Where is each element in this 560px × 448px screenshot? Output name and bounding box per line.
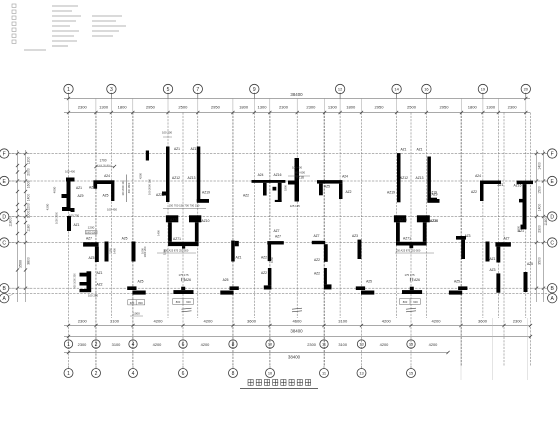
column AZ16 stub (273, 187, 277, 191)
svg-text:2500: 2500 (407, 105, 417, 110)
short wall bar x146 (146, 151, 149, 161)
svg-text:AZ1: AZ1 (76, 186, 82, 190)
svg-text:3500: 3500 (538, 257, 542, 265)
svg-text:AZ3: AZ3 (89, 186, 95, 190)
axis line x=504 (503, 113, 505, 367)
column AZ7 bar (83, 242, 99, 246)
row bubble B left (0, 284, 9, 293)
bottom bubble row 2 (68, 366, 70, 369)
svg-text:1400: 1400 (538, 162, 542, 170)
svg-text:1400: 1400 (157, 230, 161, 236)
svg-text:AZ12: AZ12 (172, 176, 180, 180)
svg-text:1000: 1000 (133, 312, 140, 316)
svg-text:AZ7: AZ7 (273, 229, 279, 233)
svg-text:800: 800 (403, 300, 408, 304)
axis line x=132.8 (132, 113, 134, 367)
svg-text:100 A25 875 250 500: 100 A25 875 250 500 (164, 248, 189, 252)
grid bubble 9 top (250, 84, 259, 93)
svg-text:AZ5: AZ5 (102, 194, 108, 198)
svg-text:1400: 1400 (113, 248, 117, 254)
svg-text:1400: 1400 (538, 204, 542, 212)
svg-text:4200: 4200 (431, 319, 441, 324)
bottom bubble 6 row1 (179, 340, 187, 348)
svg-text:2300: 2300 (78, 319, 88, 324)
svg-text:11800: 11800 (544, 216, 548, 225)
svg-text:2300: 2300 (508, 105, 518, 110)
svg-text:1000 100: 1000 100 (86, 231, 97, 234)
svg-text:2950: 2950 (375, 105, 385, 110)
svg-text:3: 3 (110, 87, 113, 93)
svg-text:A24: A24 (342, 175, 348, 179)
row bubble F left (0, 149, 9, 158)
grid bubble 14 top (392, 84, 401, 93)
grid bubble 20 top (521, 84, 530, 93)
svg-text:1600: 1600 (27, 181, 31, 189)
column A24 leg right wing (480, 184, 484, 201)
axis line x=254.3 (253, 113, 255, 319)
axis line x=197.8 (197, 113, 199, 319)
svg-text:AZ7: AZ7 (86, 237, 92, 241)
caption underline (240, 388, 318, 390)
row bubble E left (0, 176, 9, 185)
svg-text:AZ13: AZ13 (416, 176, 424, 180)
svg-text:1300: 1300 (99, 105, 109, 110)
svg-text:1400: 1400 (27, 194, 31, 202)
column A24 right leg (339, 184, 343, 199)
A26 dim ticks above (181, 278, 183, 282)
stair core left leg (168, 222, 172, 242)
column bar x498 B-row (496, 273, 500, 292)
wall column AZ1 lower segment (67, 216, 71, 231)
axis line x=530.5 (530, 113, 532, 367)
wall AZ12 axis14 (397, 153, 401, 202)
column A25 bar x133 (132, 242, 136, 262)
svg-text:D: D (550, 214, 554, 220)
svg-text:1200: 1200 (27, 157, 31, 165)
svg-text:1800: 1800 (239, 105, 249, 110)
svg-text:AZ71: AZ71 (403, 237, 411, 241)
svg-text:AZ13: AZ13 (188, 176, 196, 180)
svg-text:4200: 4200 (380, 342, 389, 347)
bottom bubble 4 row2 (129, 369, 138, 378)
svg-text:8: 8 (232, 342, 235, 348)
svg-text:A24: A24 (475, 174, 481, 178)
wall column AZ1 axis1 vertical web (67, 182, 71, 210)
svg-text:1500: 1500 (163, 249, 167, 255)
stair core AZ10 top bar right right-wing (417, 215, 430, 222)
grid line row A (8, 292, 548, 294)
column A26 wide bar (173, 290, 193, 294)
column A26 centre blob right (410, 287, 414, 290)
row bubble C right (548, 238, 557, 247)
svg-text:AZ2: AZ2 (345, 190, 351, 194)
svg-text:15: 15 (409, 370, 413, 375)
grid bubble 16 top (422, 84, 431, 93)
column C-row bar x487 (486, 242, 490, 262)
svg-text:600: 600 (130, 301, 135, 305)
column A26 wide bar right (402, 290, 422, 294)
svg-text:800: 800 (138, 301, 143, 305)
svg-text:1: 1 (67, 371, 70, 377)
stair core bottom stub (182, 246, 185, 249)
svg-text:4200: 4200 (46, 203, 50, 210)
column far-right top bar (517, 181, 533, 185)
svg-text:AZ5: AZ5 (527, 262, 533, 266)
column AZ16 leg b (278, 183, 282, 202)
bottom dim line 3 (64, 352, 448, 354)
column AZ3 leg x463 (461, 240, 465, 259)
bottom detail dim line (64, 325, 531, 327)
column AZ1 stub right (235, 241, 239, 246)
column far-right stub (519, 199, 523, 203)
wall AZ1/AZ2 axis2 web (87, 271, 92, 292)
svg-text:150 A25 875 250 500: 150 A25 875 250 500 (396, 248, 421, 252)
svg-text:2950: 2950 (439, 105, 449, 110)
svg-text:AZ2: AZ2 (261, 256, 267, 260)
bottom bubble 11 row2 (320, 369, 329, 378)
svg-text:175 175: 175 175 (178, 273, 189, 277)
svg-text:100 400: 100 400 (292, 166, 303, 170)
svg-text:1180: 1180 (27, 224, 31, 231)
svg-text:11: 11 (322, 341, 326, 346)
svg-text:1800: 1800 (468, 105, 478, 110)
column AZ1 bar x233 (231, 241, 235, 262)
svg-text:AZ1: AZ1 (73, 223, 79, 227)
bottom bubble 10 row1 (266, 340, 274, 348)
svg-text:AZ3: AZ3 (464, 234, 470, 238)
faint trailing vertical (527, 318, 529, 380)
axis line x=297.2 (296, 113, 298, 319)
svg-text:3800: 3800 (27, 257, 31, 265)
svg-text:1050: 1050 (270, 257, 274, 263)
axis line x=111.4 (110, 113, 112, 319)
svg-text:1: 1 (67, 342, 70, 348)
svg-text:100 2000 100: 100 2000 100 (148, 179, 152, 195)
bottom overall dim line (64, 336, 531, 338)
svg-text:AZ3: AZ3 (489, 268, 495, 272)
wall axis2 stub bottom (80, 289, 87, 292)
svg-text:800: 800 (176, 300, 181, 304)
svg-text:2300: 2300 (78, 105, 88, 110)
wall AZ19 bottom bar (197, 199, 209, 203)
axis line x=183 (182, 113, 184, 367)
svg-text:4200: 4200 (153, 319, 163, 324)
bottom bubble 15 row2 (407, 369, 416, 378)
wall AZ13 axis16 (427, 157, 431, 203)
grid bubble 12 top (335, 84, 344, 93)
bottom bubble 1 row2 (64, 369, 73, 378)
svg-text:AZ70: AZ70 (170, 218, 178, 222)
row bubble A right (548, 294, 557, 303)
svg-text:2300: 2300 (538, 225, 542, 233)
grid bubble 3 top (107, 84, 116, 93)
right dim line outer (543, 150, 545, 302)
svg-text:AZ25: AZ25 (156, 193, 164, 197)
svg-text:AZ2: AZ2 (314, 272, 320, 276)
svg-text:2950: 2950 (211, 105, 221, 110)
column far-right tall web (523, 184, 527, 228)
column A26 centre blob (181, 287, 185, 290)
A26 right dim ticks above (409, 278, 411, 282)
column AZ7 leg x498 (496, 247, 500, 263)
svg-text:AZ2: AZ2 (96, 283, 102, 287)
axis line x=340.1 (339, 113, 341, 319)
stair core AZ70 top bar left right-wing (394, 215, 406, 222)
column A25 lower bar x368 (361, 291, 374, 295)
wall AZ19 bottom bar right (427, 199, 439, 203)
svg-text:19: 19 (481, 86, 485, 91)
svg-text:3100: 3100 (110, 319, 120, 324)
grid line row E (8, 180, 548, 182)
column AZ7 bar x503 (495, 242, 511, 246)
axis line x=96 (95, 113, 97, 367)
svg-text:38400: 38400 (290, 92, 303, 97)
svg-text:13: 13 (359, 370, 363, 375)
svg-text:A26: A26 (185, 278, 191, 282)
column A24 left leg (93, 184, 97, 189)
column A25 lower bar x455 (449, 291, 462, 295)
svg-text:2300: 2300 (307, 342, 316, 347)
column A24 left leg (319, 184, 323, 196)
svg-text:AZ71: AZ71 (173, 237, 181, 241)
svg-text:4200: 4200 (382, 319, 392, 324)
svg-text:1000 2000: 1000 2000 (56, 211, 59, 223)
svg-text:4200: 4200 (429, 342, 438, 347)
svg-text:4200: 4200 (203, 319, 213, 324)
svg-text:100 700: 100 700 (69, 214, 80, 218)
svg-text:300 1800: 300 1800 (128, 182, 131, 193)
bottom bubble 1 row1 (64, 340, 72, 348)
svg-text:AZ1: AZ1 (96, 271, 102, 275)
grid bubble 5 top (163, 84, 172, 93)
svg-text:600: 600 (186, 300, 191, 304)
svg-text:600: 600 (413, 300, 418, 304)
svg-text:5: 5 (167, 87, 170, 93)
svg-text:AZ16: AZ16 (296, 176, 304, 180)
svg-text:11: 11 (322, 370, 326, 375)
svg-text:125 125: 125 125 (290, 204, 301, 208)
svg-text:AZ19: AZ19 (387, 190, 395, 194)
svg-text:A25: A25 (223, 278, 229, 282)
svg-text:AZ5: AZ5 (324, 185, 330, 189)
grid bubble 19 top (478, 84, 487, 93)
row bubble C left (0, 238, 9, 247)
left dim line outer (17, 150, 19, 302)
svg-text:4200: 4200 (201, 342, 210, 347)
svg-text:3100: 3100 (338, 342, 347, 347)
svg-text:1800: 1800 (284, 185, 288, 191)
svg-text:150 700 150 700 700 150: 150 700 150 700 700 150 (169, 203, 200, 207)
svg-text:AZ1: AZ1 (235, 256, 241, 260)
column AZ1 end blob (521, 225, 527, 230)
svg-text:2300: 2300 (78, 342, 87, 347)
svg-text:AZ7: AZ7 (275, 235, 281, 239)
axis line x=68.5 (68, 113, 70, 367)
svg-text:A25: A25 (366, 280, 372, 284)
axis line x=232.9 (232, 113, 234, 367)
axis line x=269.8 (269, 113, 271, 367)
svg-text:2300: 2300 (279, 105, 289, 110)
stair core right leg (195, 222, 199, 242)
svg-text:AZ9: AZ9 (77, 194, 83, 198)
svg-text:15: 15 (409, 341, 413, 346)
grid line row F (8, 153, 548, 155)
svg-text:2950: 2950 (146, 105, 156, 110)
axis line x=95.9 (95, 113, 97, 367)
svg-text:1700: 1700 (99, 159, 106, 163)
column A25 lower bar x139 (132, 291, 145, 295)
svg-text:1150: 1150 (109, 248, 113, 254)
column A24 top bar (93, 180, 114, 184)
svg-text:F: F (3, 151, 6, 157)
right dim line inner (536, 150, 538, 302)
svg-text:100 200: 100 200 (88, 294, 99, 298)
column A25 lower bar x227 (220, 291, 233, 295)
axis line x=133 (132, 113, 134, 367)
wall column AZ1 right blob (71, 208, 75, 212)
column AZ7 leg (95, 247, 99, 262)
row bubble E right (548, 176, 557, 185)
svg-text:1000: 1000 (27, 211, 31, 219)
column AZ3 bar x461 top (456, 236, 466, 240)
caption pseudo-CJK title (248, 380, 253, 386)
column A25 upper bar x360 (356, 286, 365, 290)
svg-text:A26: A26 (414, 278, 420, 282)
axis line x=426.4 (425, 113, 427, 319)
column AZ7 bar centre-left (267, 241, 284, 244)
svg-text:AZ1: AZ1 (416, 147, 422, 151)
svg-text:3600: 3600 (247, 319, 257, 324)
svg-text:4000: 4000 (53, 186, 57, 193)
svg-text:38400: 38400 (288, 355, 301, 360)
svg-text:100 2000 100: 100 2000 100 (122, 180, 125, 196)
svg-text:3100: 3100 (112, 342, 121, 347)
svg-text:100 450: 100 450 (107, 208, 118, 212)
column AZ9 bar (430, 198, 437, 202)
svg-text:AZ1: AZ1 (400, 147, 406, 151)
break symbols near row A (182, 308, 192, 309)
bottom bubble 6 row2 (179, 369, 188, 378)
bottom bubble 8 row1 (229, 340, 237, 348)
bottom bubble 15 row1 (407, 340, 415, 348)
svg-text:AZ2: AZ2 (471, 190, 477, 194)
column A24 bar right wing (480, 181, 501, 185)
stair core right-wing left leg (396, 222, 400, 242)
svg-text:100 400: 100 400 (65, 170, 76, 174)
wall axis2 stub top (80, 273, 87, 277)
row bubble F right (548, 149, 557, 158)
svg-text:1300: 1300 (486, 105, 496, 110)
grid line row C (8, 242, 548, 244)
wall AZ2 foot right at B row (324, 284, 332, 289)
stair core right-wing bottom bar (396, 242, 427, 246)
column A25 upper bar x462 (458, 286, 467, 290)
bottom bubble 13 row2 (357, 369, 366, 378)
top overall dim line (64, 98, 530, 100)
svg-text:AZ1: AZ1 (489, 257, 495, 261)
axis line x=498.4 (497, 113, 499, 319)
column AZ7 bar right of centre (312, 241, 325, 244)
svg-text:1000: 1000 (141, 248, 145, 254)
faint notes block top-left (12, 4, 16, 7)
svg-text:AZ2: AZ2 (261, 271, 267, 275)
svg-text:600 600: 600 600 (295, 171, 306, 175)
svg-text:100 200: 100 200 (162, 131, 173, 135)
row bubble B right (548, 284, 557, 293)
top detail dim line (64, 112, 530, 114)
axis line x=525.8 (525, 113, 527, 319)
svg-text:500 1000 300: 500 1000 300 (74, 273, 77, 289)
svg-text:A25: A25 (122, 237, 128, 241)
axis line x=461.5 (461, 113, 463, 367)
svg-text:2300: 2300 (306, 105, 316, 110)
svg-text:3500: 3500 (19, 260, 23, 268)
svg-text:AZ16: AZ16 (514, 183, 522, 187)
svg-text:6: 6 (182, 371, 185, 377)
row bubble D right (548, 212, 557, 221)
svg-text:38400: 38400 (290, 329, 303, 334)
column AZ7 leg / wall AZ2 long bar upper x325 (324, 244, 328, 262)
svg-text:3600: 3600 (478, 319, 488, 324)
axis3 vertical dim line with rotated text (126, 175, 128, 203)
svg-text:AZ1: AZ1 (497, 183, 503, 187)
svg-text:2: 2 (95, 371, 98, 377)
faint trailing vertical (460, 318, 462, 380)
svg-text:AZ5: AZ5 (137, 280, 143, 284)
svg-text:9: 9 (253, 87, 256, 93)
svg-text:175 175: 175 175 (404, 273, 415, 277)
column A24/AZ16 top bar (252, 180, 286, 183)
svg-text:4: 4 (132, 371, 135, 377)
svg-text:A24: A24 (258, 173, 264, 177)
column A25 upper bar x132 (127, 286, 136, 290)
stair core AZ70 top bar left (166, 215, 178, 222)
svg-text:13: 13 (359, 341, 363, 346)
faint trailing vertical (492, 318, 494, 380)
svg-text:AZ3: AZ3 (352, 234, 358, 238)
svg-text:AZ12: AZ12 (400, 176, 408, 180)
grid bubble 7 top (193, 84, 202, 93)
axis line x=396.6 (396, 113, 398, 319)
svg-text:AZ5: AZ5 (88, 256, 94, 260)
svg-text:AZ2: AZ2 (243, 194, 249, 198)
svg-text:6: 6 (182, 342, 185, 348)
axis line x=461 (460, 113, 462, 367)
svg-text:AZ70: AZ70 (399, 218, 407, 222)
axis line x=324 (323, 113, 325, 367)
axis line x=361.5 (361, 113, 363, 367)
wall centre stub (288, 181, 295, 185)
wall AZ1/AZ12 axis5 (166, 147, 170, 203)
svg-text:8: 8 (232, 371, 235, 377)
grid line row B (8, 287, 548, 289)
svg-text:2500: 2500 (178, 105, 188, 110)
svg-text:D: D (2, 214, 6, 220)
axis line x=482.9 (482, 113, 484, 319)
column leg a (263, 183, 267, 196)
column C-row bar x106 (105, 242, 109, 262)
svg-text:1: 1 (67, 87, 70, 93)
column A24 bar right of centre (317, 180, 343, 184)
column A24 right leg (111, 184, 114, 201)
axis line x=324.6 (324, 113, 326, 367)
svg-text:AZ5: AZ5 (454, 280, 460, 284)
svg-text:1800: 1800 (118, 105, 128, 110)
svg-text:3100: 3100 (338, 319, 348, 324)
svg-text:4200: 4200 (139, 172, 143, 179)
grid line row D (8, 216, 548, 218)
grid bubble 1 top (64, 84, 73, 93)
